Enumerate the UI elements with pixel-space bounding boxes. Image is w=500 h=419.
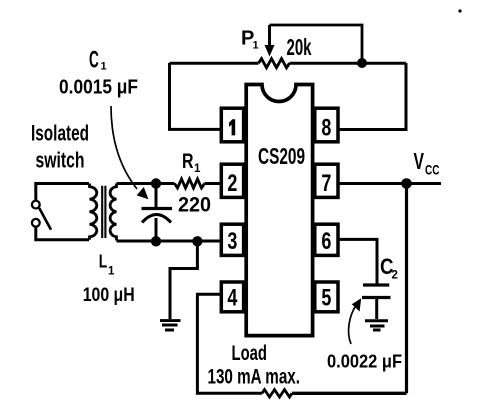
pin 1	[221, 108, 243, 142]
svg-text:R: R	[182, 150, 194, 173]
svg-text:2: 2	[392, 270, 398, 282]
svg-text:0.0022 μF: 0.0022 μF	[327, 351, 402, 372]
pin 3	[221, 224, 243, 255]
pin 7	[315, 164, 338, 197]
potentiometer wiper arrow	[268, 25, 271, 46]
svg-text:Isolated: Isolated	[31, 120, 89, 145]
switch S1 upper contact	[32, 201, 40, 209]
arrow from C1 label to C1	[111, 106, 137, 189]
node: C1 bottom junction	[151, 236, 161, 246]
svg-text:CC: CC	[425, 161, 440, 177]
svg-text:1: 1	[108, 266, 115, 278]
svg-text:1: 1	[101, 60, 107, 72]
svg-text:4: 4	[227, 285, 237, 312]
svg-text:1: 1	[194, 163, 201, 175]
inductor L1 secondary winding	[110, 184, 116, 241]
capacitor C2 bottom plate	[362, 296, 391, 299]
capacitor C2 bottom lead	[375, 298, 378, 320]
svg-text:1: 1	[253, 40, 259, 52]
svg-text:8: 8	[321, 114, 331, 141]
wire: bottom wire to Vcc rail	[292, 392, 407, 395]
capacitor C1 top plate	[142, 207, 173, 210]
wire: switch lower contact to bottom	[36, 227, 89, 240]
node: C1 top junction	[151, 178, 161, 188]
node: ground branch junction	[192, 236, 202, 246]
wire: R1 right lead to pin 2	[205, 182, 222, 185]
svg-text:7: 7	[321, 170, 331, 197]
wire: pot wiper loop to right end	[270, 25, 363, 63]
node: pot wiper junction	[357, 58, 367, 68]
capacitor C2 top plate	[363, 283, 389, 286]
svg-text:6: 6	[321, 228, 331, 255]
transformer primary winding	[90, 184, 97, 240]
svg-text:2: 2	[227, 170, 237, 197]
svg-text:100 μH: 100 μH	[83, 285, 135, 306]
ground (C2)	[365, 321, 388, 330]
ground (left)	[160, 321, 181, 330]
svg-text:5: 5	[321, 285, 331, 312]
switch S1 lower contact	[32, 219, 40, 227]
potentiometer P1 body (zigzag)	[259, 59, 290, 68]
wire: pot rail left segment	[170, 62, 259, 65]
switch S1 top wire	[36, 184, 89, 201]
svg-text:V: V	[414, 148, 425, 174]
resistor load (zigzag in bottom wire)	[262, 390, 292, 397]
switch S1 blade	[39, 208, 51, 230]
capacitor C1 curved plate	[142, 215, 171, 223]
transformer core	[102, 186, 105, 238]
wire: pin 6 to C2	[338, 239, 377, 283]
svg-text:20k: 20k	[287, 34, 312, 60]
svg-text:C: C	[89, 47, 99, 74]
pin 8	[315, 108, 338, 142]
svg-text:130 mA max.: 130 mA max.	[208, 365, 301, 388]
svg-text:0.0015 μF: 0.0015 μF	[59, 76, 138, 98]
wire: secondary top to C1 junction	[117, 182, 175, 185]
svg-text:Load: Load	[232, 342, 268, 365]
pin 4	[221, 282, 243, 312]
wire: pin 7 to Vcc	[338, 182, 441, 185]
wire: Vcc rail down to bottom wire	[405, 184, 408, 394]
resistor R1 zigzag	[175, 179, 205, 188]
capacitor C1 top lead	[155, 184, 158, 208]
pin 6	[315, 224, 338, 255]
wire: pot right segment to junction	[290, 62, 407, 65]
wire: ground branch from bottom rail	[170, 241, 197, 319]
pin 2	[221, 164, 243, 197]
pin 5	[315, 282, 338, 312]
svg-text:CS209: CS209	[258, 143, 305, 169]
svg-text:switch: switch	[36, 148, 85, 173]
wire: bottom rail from secondary to pin 3	[117, 240, 222, 243]
node: Vcc junction	[401, 178, 412, 189]
svg-text:220: 220	[178, 194, 211, 217]
op-amp U1 CS209 IC body	[246, 85, 312, 336]
wire: pot right end down to pin 8	[338, 63, 406, 130]
svg-text:L: L	[99, 251, 108, 272]
svg-text:3: 3	[227, 228, 237, 255]
speck	[458, 9, 461, 12]
wire: pin 4 to load bottom wire	[197, 294, 262, 393]
wire: pot left end down to pin 1	[170, 63, 222, 129]
capacitor C1 bottom lead	[155, 218, 158, 241]
arrow from 0.0022uF label to C2	[349, 304, 357, 344]
